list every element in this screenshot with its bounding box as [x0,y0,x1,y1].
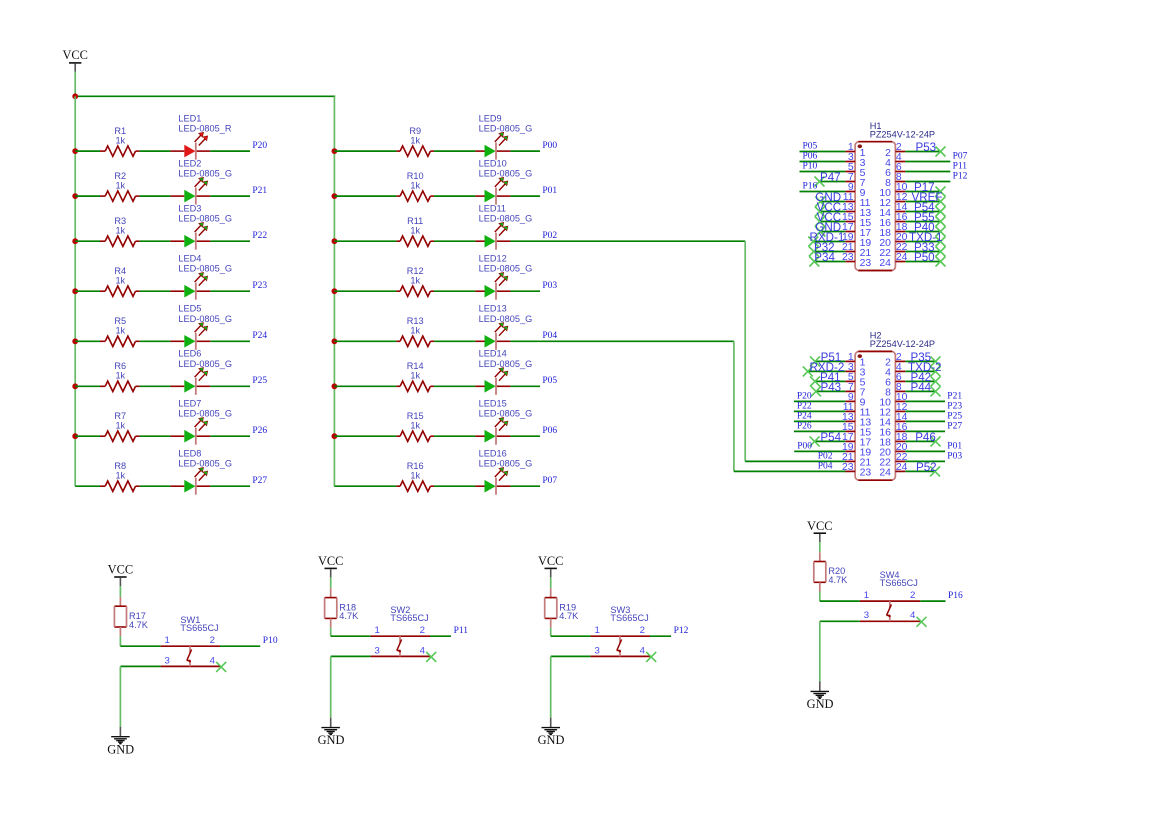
label R1 value 1k [115,136,125,146]
H2 pin 18 stub [895,440,905,442]
label LED12 type LED-0805_G [479,264,533,274]
svg-text:LED-0805_G: LED-0805_G [178,459,232,469]
SW1 pin 1 number [165,635,170,646]
net label P42 [911,371,932,384]
no-connect flag H2 pin 4 [931,366,941,376]
ground symbol GND (SW1) [107,727,134,757]
H2 pin 8 name (inside) [885,388,891,399]
connector H1 body [855,142,895,271]
svg-text:P00: P00 [542,141,557,151]
svg-text:VCC: VCC [807,519,832,533]
wire LED15 to net P06 [510,435,540,437]
label R6 value 1k [115,371,125,381]
svg-text:LED-0805_R: LED-0805_R [178,124,231,134]
resistor R12 [396,286,434,296]
no-connect flag H1 pin 13 [815,207,825,217]
H2 pin 19 name (inside) [860,448,872,459]
net label P24 [252,331,267,341]
svg-text:1: 1 [595,625,600,636]
wire H2 pin 12 net P23 [905,410,945,412]
wire LED16 to net P07 [510,485,540,487]
wire R4 to LED4 [140,290,171,292]
svg-text:R7: R7 [114,411,126,421]
net label P03 [542,281,557,291]
wire R19 to SW3 pin 1 [551,628,591,637]
no-connect flag H1 pin 14 [936,207,946,217]
H2 pin 24 stub [895,470,905,472]
svg-text:2: 2 [420,625,425,636]
label LED9 designator [479,114,502,124]
net label P26 [252,426,267,436]
svg-text:R13: R13 [407,316,424,326]
H1 pin 15 stub [845,221,855,223]
svg-text:VCC: VCC [108,563,133,577]
label R9 designator [409,126,421,136]
no-connect flag H2 pin 5 [810,376,820,386]
svg-text:R11: R11 [407,216,423,226]
H1 pin 6 number (outside) [896,162,902,173]
wire rail to R13 [334,340,396,342]
svg-text:LED-0805_G: LED-0805_G [479,264,533,274]
H1 pin 16 stub [895,221,905,223]
svg-text:3: 3 [864,610,869,621]
junction node row 3 column 2 [332,238,338,244]
power symbol VCC (SW1) [108,563,133,586]
H1 pin 16 number (outside) [896,212,908,223]
H2 pin 21 number (outside) [842,452,854,463]
net label P11 [953,161,968,171]
svg-text:PZ254V-12-24P: PZ254V-12-24P [870,130,935,140]
H2 pin 9 name (inside) [860,398,866,409]
net label P17 [914,181,935,194]
resistor R17 [114,597,126,636]
svg-text:4: 4 [420,645,426,656]
svg-text:LED16: LED16 [479,449,507,459]
svg-text:3: 3 [595,645,600,656]
wire H2 pin 18 net P46 [905,440,935,442]
junction node row 1 column 1 [72,148,78,154]
label R18 designator [339,602,356,612]
LED D LED14 [475,368,510,395]
svg-text:R14: R14 [407,361,424,371]
net label P02 [542,231,557,241]
H1 pin 9 stub [845,191,855,193]
wire H1 pin 5 net P10 [800,171,846,173]
svg-text:LED5: LED5 [178,304,201,314]
junction node row 1 column 2 [332,148,338,154]
wire VCC right rail (column 2) [333,96,335,486]
label R13 value 1k [410,326,420,336]
resistor R2 [100,191,140,201]
wire LED13 to net P04 [510,340,540,342]
H2 pin 22 stub [895,460,905,462]
H1 pin 1 stub [845,151,855,153]
net label P46 [915,431,936,444]
no-connect flag H1 pin 17 [815,227,825,237]
H1 pin 21 name (inside) [860,248,872,259]
H2 pin 20 stub [895,450,905,452]
net label P51 [821,351,842,364]
resistor R16 [396,481,434,491]
svg-text:1k: 1k [410,276,420,286]
SW4 pin 3 number [864,610,869,621]
net label P07 [953,151,968,161]
H1 pin 17 stub [845,231,855,233]
H2 pin 12 name (inside) [879,408,891,419]
H2 pin 22 name (inside) [879,458,891,469]
net label P12 [953,171,968,181]
resistor R19 [545,588,557,627]
label H1 designator [870,121,882,131]
wire LED3 to net P22 [210,240,250,242]
wire LED8 to net P27 [210,485,250,487]
H1 pin 13 name (inside) [860,208,872,219]
wire H1 pin 24 net P50 [905,261,940,263]
svg-text:23: 23 [842,462,854,473]
svg-text:1k: 1k [115,136,125,146]
H1 pin 23 number (outside) [842,252,854,263]
svg-text:LED15: LED15 [479,399,507,409]
LED D LED11 [475,222,510,249]
junction node row 5 column 1 [72,338,78,344]
svg-text:R3: R3 [114,216,126,226]
svg-text:1: 1 [375,625,380,636]
svg-text:P26: P26 [797,421,812,431]
svg-text:P43: P43 [821,381,842,394]
wire LED6 to net P25 [210,385,250,387]
wire R20 to SW4 pin 1 [820,592,860,602]
H2 pin 11 name (inside) [860,408,871,419]
H1 pin 12 number (outside) [896,192,908,203]
junction node row 2 column 2 [332,193,338,199]
svg-text:LED-0805_G: LED-0805_G [479,409,533,419]
H2 pin 10 stub [895,400,905,402]
svg-text:4: 4 [210,655,216,666]
H1 pin 5 number (outside) [848,162,854,173]
wire H1 pin 10 net P17 [905,191,940,193]
no-connect flag H1 pin 22 [936,247,946,257]
svg-text:LED-0805_G: LED-0805_G [178,314,232,324]
svg-text:VCC: VCC [538,554,563,568]
H2 pin 10 name (inside) [879,398,891,409]
label R14 value 1k [410,371,420,381]
H1 pin 20 stub [895,241,905,243]
wire VCC top horizontal bus [74,95,335,97]
wire H2 pin 22 net P03 [905,460,945,462]
svg-text:LED-0805_G: LED-0805_G [479,124,533,134]
H1 pin 4 name (inside) [885,158,891,169]
H1 pin 23 name (inside) [860,258,872,269]
net label P11 [454,626,469,636]
H2 pin 23 name (inside) [860,468,872,479]
label LED8 designator [178,449,201,459]
H2 pin 1 stub [845,360,855,362]
net label P05 [803,141,818,151]
wire H2 pin 24 net P52 [905,470,935,472]
svg-text:1k: 1k [115,421,125,431]
no-connect flag SW1 pin 4 [216,662,226,672]
wire H2 pin 6 net P42 [905,380,935,382]
net label P22 [797,401,812,411]
svg-text:3: 3 [165,655,170,666]
H1 pin 2 name (inside) [885,148,891,159]
wire VCC vertical drop [74,72,76,97]
H1 pin 7 name (inside) [860,178,866,189]
svg-text:TS665CJ: TS665CJ [610,613,648,623]
SW1 pin 4 number [210,655,216,666]
net label P00 [542,141,557,151]
svg-text:LED9: LED9 [479,114,502,124]
svg-text:P06: P06 [542,426,557,436]
wire R15 to LED15 [434,435,475,437]
H1 pin 19 number (outside) [842,232,854,243]
svg-text:P26: P26 [252,426,267,436]
resistor R10 [396,191,434,201]
net label P55 [914,211,935,224]
no-connect flag H1 pin 18 [936,227,946,237]
SW3 pin 3 number [595,645,600,656]
wire LED1 to net P20 [210,150,250,152]
H1 pin 2 stub [895,151,905,153]
H2 pin 4 number (outside) [896,362,902,373]
label LED10 designator [479,159,507,169]
label R8 designator [114,461,126,471]
H2 pin 8 number (outside) [896,382,902,393]
wire SW1 pin 2 to net P10 [220,645,260,647]
LED D LED2 [170,177,210,204]
svg-text:P23: P23 [947,401,962,411]
power symbol VCC (SW2) [318,554,343,577]
svg-text:1: 1 [165,635,170,646]
svg-text:LED13: LED13 [479,304,507,314]
svg-text:4.7K: 4.7K [559,611,579,621]
label R19 designator [559,602,576,612]
wire LED14 to net P05 [510,385,540,387]
svg-text:P04: P04 [818,461,833,471]
H1 pin 11 name (inside) [860,198,871,209]
switch SW3 [591,636,650,656]
LED D LED4 [170,272,210,299]
label R6 designator [114,361,126,371]
svg-text:24: 24 [879,468,891,479]
wire rail to R6 [75,385,100,387]
H1 pin 19 name (inside) [860,238,872,249]
wire H1 pin 6 net P11 [905,171,950,173]
LED D LED9 [475,132,510,159]
wire R7 to LED7 [140,435,171,437]
net label P16 [803,181,818,191]
svg-text:1k: 1k [115,181,125,191]
svg-text:LED8: LED8 [178,449,201,459]
svg-text:P01: P01 [947,441,962,451]
wire rail to R16 [334,485,396,487]
resistor R4 [100,286,140,296]
wire R14 to LED14 [434,385,475,387]
LED D LED3 [170,222,210,249]
H2 pin 1 name (inside) [860,358,866,369]
net label P43 [821,381,842,394]
switch SW1 [161,646,220,666]
label R3 value 1k [115,226,125,236]
net label P06 [542,426,557,436]
svg-text:R15: R15 [407,411,424,421]
wire LED9 to net P00 [510,150,540,152]
wire R17 to SW1 pin 1 [120,636,160,646]
wire H1 pin 12 net VREF [905,201,940,203]
wire net P04 from LED14 to H2 pin 23 [540,341,846,471]
H1 pin 20 number (outside) [896,232,908,243]
label LED4 type LED-0805_G [178,264,232,274]
svg-text:P27: P27 [252,476,267,486]
wire rail to R14 [334,385,396,387]
wire rail to R8 [75,485,100,487]
net label P23 [252,281,267,291]
H1 pin 18 name (inside) [879,228,891,239]
wire R12 to LED12 [434,290,475,292]
net label P05 [542,376,557,386]
wire LED2 to net P21 [210,195,250,197]
label LED11 designator [479,204,506,214]
no-connect flag SW4 pin 4 [917,617,927,627]
net label P23 [947,401,962,411]
H2 pin 4 name (inside) [885,368,891,379]
svg-text:P11: P11 [454,626,469,636]
label SW2 type TS665CJ [390,613,428,623]
no-connect flag H1 pin 20 [936,237,946,247]
wire H1 pin 21 net P32 [814,251,846,253]
net label VCC [817,211,841,224]
svg-text:4.7K: 4.7K [828,575,848,585]
label R16 designator [407,461,424,471]
H1 pin 22 number (outside) [896,242,908,253]
label R17 value 4.7K [129,620,149,630]
svg-text:P05: P05 [803,141,818,151]
net label TXD-2 [908,361,942,374]
H2 pin 19 stub [845,450,855,452]
label LED5 type LED-0805_G [178,314,232,324]
wire rail to R4 [75,290,100,292]
H2 pin 2 name (inside) [885,358,891,369]
label LED4 designator [178,254,201,264]
wire H2 pin 11 net P22 [794,410,845,412]
H1 pin 7 number (outside) [848,172,854,183]
SW3 pin 4 number [640,645,646,656]
wire R9 to LED9 [434,150,475,152]
wire SW4 pin 2 to net P16 [920,600,945,602]
LED D LED8 [170,467,210,494]
ground symbol GND (SW4) [807,681,834,711]
svg-text:LED-0805_G: LED-0805_G [479,214,533,224]
H1 pin 5 stub [845,171,855,173]
net label P35 [911,351,932,364]
junction node row 5 column 2 [332,338,338,344]
label LED13 type LED-0805_G [479,314,533,324]
svg-text:P25: P25 [252,376,267,386]
svg-text:P12: P12 [674,626,689,636]
label R5 value 1k [115,326,125,336]
LED D LED15 [475,417,510,444]
H1 pin 19 stub [845,241,855,243]
H2 pin 23 number (outside) [842,462,854,473]
H2 pin 20 name (inside) [879,448,891,459]
net label P07 [542,476,557,486]
svg-text:GND: GND [107,742,134,756]
H2 pin 9 stub [845,400,855,402]
no-connect flag H1 pin 23 [809,257,819,267]
svg-text:P52: P52 [916,461,937,474]
wire H2 pin 19 net P00 [794,450,845,452]
H2 pin 12 number (outside) [896,402,908,413]
SW4 pin 2 number [910,590,915,601]
net label P20 [797,391,812,401]
svg-text:1k: 1k [115,226,125,236]
wire SW1 pin 3 to GND [120,666,160,726]
net label P10 [803,161,818,171]
svg-text:1k: 1k [115,471,125,481]
no-connect flag H2 pin 2 [931,356,941,366]
svg-text:2: 2 [640,625,645,636]
H2 pin 21 stub [845,460,855,462]
H1 pin 3 number (outside) [848,152,854,163]
wire rail to R12 [334,290,396,292]
H1 pin 4 stub [895,161,905,163]
svg-text:R8: R8 [114,461,126,471]
wire H1 pin 1 net P05 [800,151,846,153]
LED D LED5 [170,323,210,350]
svg-text:LED6: LED6 [178,349,201,359]
H2 pin 7 stub [845,390,855,392]
label R7 designator [114,411,126,421]
svg-text:P02: P02 [818,451,833,461]
H2 pin 6 number (outside) [896,372,902,383]
svg-text:P11: P11 [953,161,968,171]
no-connect flag H2 pin 17 [810,436,820,446]
wire R11 to LED11 [434,240,475,242]
svg-text:P16: P16 [948,591,963,601]
svg-text:1k: 1k [410,471,420,481]
label LED2 type LED-0805_G [178,169,232,179]
net label VCC [817,201,841,214]
H1 pin 14 name (inside) [879,208,891,219]
label H2 designator [870,331,882,341]
svg-text:R16: R16 [407,461,424,471]
wire R5 to LED5 [140,340,171,342]
H1 pin 14 stub [895,211,905,213]
svg-text:R9: R9 [409,126,421,136]
H1 pin 6 name (inside) [885,168,891,179]
label LED15 designator [479,399,507,409]
svg-text:PZ254V-12-24P: PZ254V-12-24P [870,339,935,349]
LED D LED10 [475,177,510,204]
SW2 pin 1 number [375,625,380,636]
H1 pin 11 stub [845,201,855,203]
svg-text:P00: P00 [797,441,812,451]
H2 pin 7 name (inside) [860,388,866,399]
svg-text:LED-0805_G: LED-0805_G [178,214,232,224]
junction node row 3 column 1 [72,238,78,244]
svg-text:P04: P04 [542,331,557,341]
svg-text:VCC: VCC [62,48,87,62]
wire LED12 to net P03 [510,290,540,292]
H1 pin 17 name (inside) [860,228,872,239]
label LED5 designator [178,304,201,314]
wire H2 pin 10 net P21 [905,400,945,402]
svg-text:LED-0805_G: LED-0805_G [479,169,533,179]
junction node row 6 column 1 [72,383,78,389]
svg-text:GND: GND [807,697,834,711]
label R2 designator [114,171,126,181]
svg-text:1k: 1k [115,276,125,286]
